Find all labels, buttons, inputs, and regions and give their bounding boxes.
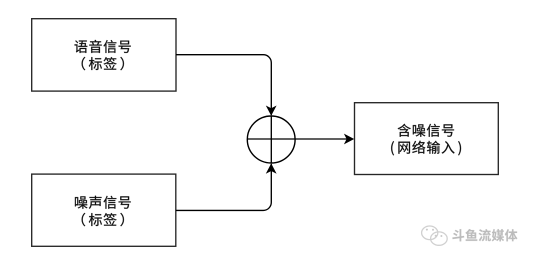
- arrowhead: into right box: [344, 134, 354, 145]
- watermark text: 斗鱼流媒体: [452, 229, 464, 241]
- wire: adder vertical plus line: [270, 115, 272, 163]
- box: 噪声信号（标签）: [32, 174, 176, 246]
- box: 语音信号（标签）: [32, 19, 176, 91]
- arrowhead: into adder top: [266, 106, 277, 116]
- text box1 line1: 语音信号: [75, 40, 88, 53]
- text box2 line2: （标签）: [82, 213, 86, 226]
- text box1 line2: （标签）: [82, 57, 86, 70]
- wire: top box to adder (elbow): [176, 55, 271, 115]
- adder circle (summing junction): [247, 116, 295, 163]
- text box2 line1: 噪声信号: [75, 196, 87, 208]
- watermark logo: douyu fish left blob: [422, 226, 448, 245]
- box: 含噪信号(网络输入): [355, 103, 499, 175]
- arrowhead: into adder bottom: [266, 163, 277, 173]
- text box3 line1: 含噪信号: [398, 124, 411, 137]
- wire: bottom box to adder (elbow): [176, 164, 271, 210]
- watermark logo: douyu fish right blob: [431, 232, 448, 245]
- watermark logo: eye dots: [426, 229, 443, 237]
- text box3 line2: (网络输入): [391, 141, 394, 155]
- wire: adder horizontal plus line and arrow to right box: [247, 138, 348, 140]
